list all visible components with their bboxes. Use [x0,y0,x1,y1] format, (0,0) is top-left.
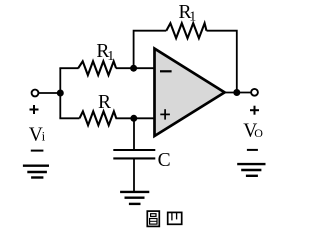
svg-text:C: C [158,150,171,171]
wire: R row right stub to non-inverting node [116,117,155,119]
capacitor C [113,150,155,158]
ground (capacitor) [120,192,149,204]
ground (left, Vi) [23,166,49,178]
svg-text:O: O [254,126,263,140]
ground (right, Vo) [237,164,265,176]
junction: input node [57,90,64,97]
junction: output node [233,89,240,96]
resistor R [80,111,117,125]
wire: R row left stub [59,117,79,119]
wire: feedback row right segment and down to output node [207,31,237,93]
wire: R1 input row right stub to inverting node [116,67,155,69]
Vi - polarity mark [31,150,44,152]
svg-text:1: 1 [189,9,196,24]
wire: non-inverting node down to capacitor [133,118,135,149]
Vi + polarity mark [30,105,39,114]
wire: input junction vertical branch (up to R1 row, down to R row) [59,68,61,118]
resistor R1 (input, upper-left) [78,61,116,75]
svg-text:R: R [98,92,111,113]
wire: R1 input row left stub [59,67,78,69]
wire: inverting node up to feedback row [134,31,167,68]
label R1 (input) [96,41,114,64]
svg-text:1: 1 [107,49,114,64]
junction: inverting input node [130,65,137,72]
wire: Vi terminal to input junction [39,92,61,94]
junction: non-inverting input node [130,115,137,122]
op-amp non-inverting input mark [160,109,170,119]
label Vi [29,124,46,145]
svg-text:i: i [42,128,46,143]
Vo + polarity mark [250,106,259,115]
op-amp U1 [155,49,225,136]
resistor R1 (feedback, top) [166,23,206,38]
Vo - polarity mark [247,149,258,151]
wire: capacitor to ground [133,159,135,192]
wire: op-amp output to Vo terminal [225,92,251,94]
caption 圖 (figure) glyph [147,211,159,226]
op-amp inverting input mark [160,70,172,72]
label Vo [243,121,263,142]
node: Vo output terminal [251,89,258,96]
label R1 (feedback) [179,2,197,24]
caption 四 glyph [168,212,182,224]
node: Vi input terminal [32,90,39,97]
